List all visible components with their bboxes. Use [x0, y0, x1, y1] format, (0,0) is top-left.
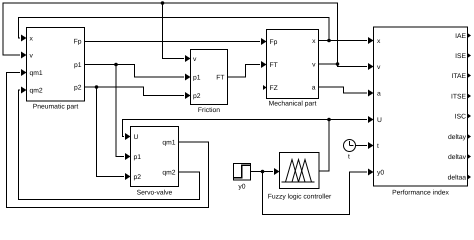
svg-text:ISE: ISE: [455, 53, 466, 60]
svg-text:Fuzzy logic controller: Fuzzy logic controller: [268, 194, 332, 201]
svg-text:U: U: [134, 134, 139, 141]
port marker Performance ITAE output: [468, 73, 472, 78]
svg-text:FZ: FZ: [270, 85, 278, 92]
junction dot v-branch: [161, 1, 165, 5]
svg-text:deltaa: deltaa: [448, 175, 467, 182]
port marker Performance ISE output: [468, 53, 472, 58]
block Performance index: [374, 27, 468, 186]
port marker Performance ISC output: [468, 114, 472, 119]
svg-text:a: a: [377, 91, 381, 98]
svg-text:Pneumatic part: Pneumatic part: [33, 104, 79, 111]
arrowhead Performance x input: [368, 37, 374, 44]
svg-text:Friction: Friction: [198, 107, 220, 114]
svg-text:ISC: ISC: [455, 114, 466, 121]
svg-text:Servo-valve: Servo-valve: [137, 190, 173, 197]
svg-text:qm2: qm2: [162, 170, 175, 177]
wire Mechanical x output to Performance: [319, 40, 368, 42]
arrowhead Servo p2 input: [125, 173, 131, 180]
junction dot y0 branch: [261, 170, 265, 174]
wire Clock to Performance t: [356, 145, 368, 147]
arrowhead Friction v input: [185, 55, 191, 62]
svg-text:Mechanical part: Mechanical part: [269, 101, 317, 108]
svg-text:a: a: [312, 85, 316, 92]
wire v-branch to Friction: [163, 3, 185, 59]
svg-text:FT: FT: [270, 62, 278, 69]
arrowhead Pneumatic x input: [21, 35, 27, 42]
wire U to Servo-valve: [123, 120, 330, 137]
svg-text:t: t: [348, 154, 350, 161]
svg-text:qm2: qm2: [30, 88, 43, 95]
port marker Performance IAE output: [468, 33, 472, 38]
junction dot v-feedback: [336, 62, 340, 66]
block Step y0: [234, 164, 251, 181]
wire v-feedback top line: [3, 3, 338, 64]
svg-text:p2: p2: [74, 85, 82, 92]
arrowhead Performance a input: [368, 90, 374, 97]
port marker Performance deltaa output: [468, 175, 472, 180]
svg-text:p2: p2: [134, 174, 142, 181]
block Friction: [191, 50, 228, 105]
block Mechanical part: [267, 30, 319, 99]
arrowhead Pneumatic qm1 input: [21, 69, 27, 76]
svg-text:qm1: qm1: [162, 140, 175, 147]
wire p1 branch to Servo-valve: [116, 65, 124, 157]
wire qm2 feedback: [19, 90, 200, 200]
arrowhead Performance U input: [368, 116, 374, 123]
svg-text:ITSE: ITSE: [451, 94, 467, 101]
port marker Performance deltav output: [468, 154, 472, 159]
wire p2 Pneumatic to Friction: [85, 87, 185, 96]
wire Fp Pneumatic to Mechanical: [85, 41, 261, 43]
port marker Performance ITSE output: [468, 94, 472, 99]
wire Mechanical a output: [319, 87, 368, 93]
wire qm1 feedback: [7, 73, 209, 208]
arrowhead Mechanical Fp input: [261, 38, 267, 45]
wire Mechanical v output: [319, 64, 368, 67]
port marker Mechanical FZ unconnected: [263, 85, 267, 90]
wire U to Performance: [329, 119, 367, 121]
svg-text:deltay: deltay: [448, 134, 467, 141]
block Pneumatic part: [27, 28, 85, 102]
svg-text:Performance index: Performance index: [392, 190, 449, 197]
junction dot U branch: [327, 118, 331, 122]
arrowhead Mechanical FT input: [261, 61, 267, 68]
svg-text:FT: FT: [216, 75, 224, 82]
block Servo-valve: [131, 127, 179, 187]
arrowhead Friction p1 input: [185, 74, 191, 81]
icon Fuzzy membership functions: [282, 160, 315, 183]
svg-text:p1: p1: [193, 75, 201, 82]
wire FT Friction to Mechanical: [228, 65, 261, 78]
arrowhead Pneumatic qm2 input: [21, 87, 27, 94]
junction dot x-feedback: [327, 39, 331, 43]
junction dot p2 branch: [95, 85, 99, 89]
svg-text:p1: p1: [74, 62, 82, 69]
icon Step waveform: [234, 165, 250, 178]
svg-text:IAE: IAE: [455, 33, 466, 40]
icon Clock: [344, 140, 356, 152]
wire x-feedback line: [19, 18, 330, 41]
svg-text:y0: y0: [377, 170, 384, 177]
arrowhead Pneumatic v input: [21, 52, 27, 59]
svg-text:U: U: [377, 117, 382, 124]
svg-text:Fp: Fp: [270, 39, 278, 46]
svg-text:deltav: deltav: [448, 154, 467, 161]
arrowhead Fuzzy input: [274, 168, 280, 175]
block Fuzzy logic controller: [280, 153, 320, 189]
svg-text:t: t: [377, 143, 379, 150]
svg-text:Fp: Fp: [74, 39, 82, 46]
arrowhead Servo U input: [125, 133, 131, 140]
arrowhead Performance t input: [368, 142, 374, 149]
wire y0 branch to Performance: [263, 172, 368, 215]
arrowhead Performance y0 input: [368, 169, 374, 176]
svg-text:qm1: qm1: [30, 70, 43, 77]
arrowhead Performance v input: [368, 63, 374, 70]
arrowhead Friction p2 input: [185, 92, 191, 99]
svg-text:p1: p1: [134, 154, 142, 161]
wire Fuzzy output U: [319, 120, 329, 172]
svg-text:y0: y0: [238, 184, 245, 191]
svg-text:ITAE: ITAE: [451, 73, 466, 80]
svg-text:p2: p2: [193, 93, 201, 100]
arrowhead Servo p1 input: [125, 153, 131, 160]
port marker Performance deltay output: [468, 134, 472, 139]
wire y0 step to Fuzzy: [251, 171, 273, 173]
wire p2 branch to Servo-valve: [97, 87, 125, 177]
junction dot p1 branch: [114, 63, 118, 67]
wire p1 Pneumatic to Friction: [85, 65, 185, 78]
